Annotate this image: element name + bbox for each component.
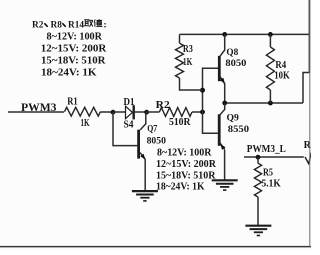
svg-text:Q9: Q9 — [227, 113, 240, 123]
resistor R5 — [257, 157, 259, 163]
svg-text:R14: R14 — [68, 19, 84, 30]
junction R5 top — [256, 155, 261, 160]
svg-text::: : — [103, 19, 106, 30]
diode D1 — [126, 106, 133, 119]
svg-text:R3: R3 — [183, 44, 193, 55]
wire PWM3 to R1 — [8, 111, 64, 113]
svg-text:Q7: Q7 — [147, 125, 157, 135]
resistor R2 — [159, 108, 192, 117]
border bottom edge — [0, 246, 311, 248]
svg-text:8~12V: 100R: 8~12V: 100R — [47, 31, 103, 42]
svg-text:8~12V: 100R: 8~12V: 100R — [157, 147, 212, 158]
ground (R5) — [245, 225, 271, 227]
node A junction — [111, 110, 116, 115]
wire output row — [225, 102, 303, 104]
svg-text:8550: 8550 — [228, 125, 250, 135]
wire vertical net: Q8 base / R3 tap / R2 / Q9 base — [203, 68, 219, 133]
svg-text:R8: R8 — [51, 19, 63, 30]
transistor Q9 collector (top) — [220, 103, 225, 115]
svg-text:R1: R1 — [67, 96, 78, 107]
svg-text:R5: R5 — [263, 168, 273, 179]
svg-text:18~24V: 1K: 18~24V: 1K — [156, 181, 205, 192]
wire right edge vertical to top — [308, 0, 310, 73]
svg-text:R2: R2 — [156, 100, 170, 111]
svg-text:1K: 1K — [183, 57, 193, 68]
resistor R3 — [179, 34, 181, 43]
svg-text:12~15V: 200R: 12~15V: 200R — [41, 43, 107, 54]
wire node A down to Q7 base — [113, 112, 137, 146]
node B junction — [144, 110, 149, 115]
svg-text:18~24V: 1K: 18~24V: 1K — [41, 67, 97, 78]
wire Q8 emitter down to output row — [224, 83, 226, 103]
transistor Q8 collector — [220, 34, 225, 56]
svg-text:R2: R2 — [32, 19, 44, 30]
wire R2 to node C — [192, 111, 203, 113]
junction output/Q8-Q9 — [222, 101, 227, 106]
wire top supply rail — [180, 33, 310, 35]
svg-text:510R: 510R — [169, 117, 191, 128]
wire Q7 emitter to ground — [144, 159, 146, 191]
transistor Q9 base bar — [218, 114, 221, 146]
wire node B to R2 — [146, 111, 159, 113]
node D junction (R3 join) — [200, 88, 205, 93]
transistor Q8 emitter — [220, 77, 225, 84]
transistor Q9 emitter with arrow into bar — [220, 143, 225, 150]
ground (Q7) — [132, 190, 158, 192]
svg-text:8050: 8050 — [147, 137, 167, 147]
wire Q9 emitter to ground — [224, 150, 226, 181]
resistor R1 — [65, 107, 101, 116]
border right edge — [309, 0, 311, 247]
wire PWM3_L row — [244, 156, 304, 158]
junction Q8 collector on rail — [222, 32, 227, 37]
transistor Q7 emitter — [140, 153, 145, 160]
hand-drawn CJK 取值 — [84, 19, 103, 26]
node C junction — [200, 110, 205, 115]
transistor Q8 base bar — [218, 56, 221, 81]
svg-text:S4: S4 — [124, 120, 134, 131]
junction R4 top on rail — [268, 32, 273, 37]
svg-text:8050: 8050 — [225, 59, 246, 69]
transistor Q7 base bar — [137, 130, 140, 159]
svg-text:Q8: Q8 — [226, 48, 238, 58]
svg-text:12~15V: 200R: 12~15V: 200R — [156, 159, 217, 170]
svg-text:D1: D1 — [124, 97, 135, 108]
ground (Q9) — [212, 179, 238, 181]
svg-text:15~18V: 510R: 15~18V: 510R — [156, 170, 216, 181]
wire node A to D1 anode — [113, 111, 126, 113]
wire node B down to Q7 collector — [140, 112, 146, 130]
wire D1 cathode to node B — [134, 111, 148, 113]
svg-text:10K: 10K — [274, 71, 290, 82]
svg-text:R4: R4 — [275, 60, 286, 71]
wire output row jog to right edge supply — [303, 73, 309, 104]
junction output/R4 bottom — [268, 101, 273, 106]
resistor R4 — [269, 34, 271, 47]
svg-text:15~18V: 510R: 15~18V: 510R — [41, 55, 106, 66]
svg-text:PWM3_L: PWM3_L — [247, 143, 286, 155]
wire R1 to node A — [100, 111, 113, 113]
svg-text:5.1K: 5.1K — [262, 179, 281, 190]
svg-text:1K: 1K — [81, 118, 90, 129]
